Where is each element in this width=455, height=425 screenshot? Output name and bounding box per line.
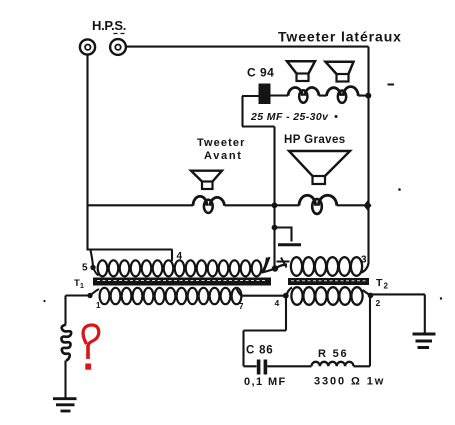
svg-text:1: 1 [80, 283, 84, 290]
wire avant row [88, 204, 369, 206]
speaker LS2 (tweeter lateral right) [326, 62, 359, 103]
T1 bottom right lead [237, 289, 242, 296]
wire terminal 2 to right ground [371, 294, 425, 333]
wire T1 sec to RC junction [241, 295, 286, 297]
svg-text:C 86: C 86 [246, 345, 274, 357]
transformer T1 core [93, 278, 271, 286]
wire C94 left leg down and over to center bus [242, 96, 275, 127]
wire left vertical from J1 [86, 55, 88, 250]
capacitor C86 [257, 360, 267, 375]
speaker LS3 (tweeter avant) [191, 171, 225, 213]
transformer T2 secondary winding [291, 287, 362, 305]
svg-text:T: T [376, 277, 383, 289]
wire center vertical bus [273, 127, 275, 269]
svg-text:R 56: R 56 [318, 348, 348, 360]
wire coil to ground [64, 361, 66, 399]
transformer T2 core [288, 278, 369, 285]
svg-text:25 MF - 25-30v: 25 MF - 25-30v [250, 111, 329, 123]
svg-text:C 94: C 94 [247, 66, 274, 80]
junction T1/T2 top windings with center bus [262, 257, 290, 273]
svg-text:5: 5 [82, 263, 88, 274]
T2 bottom left lead [286, 288, 292, 296]
wire short drop to T1 terminal 5 [91, 250, 94, 266]
svg-text:Avant: Avant [204, 150, 243, 162]
svg-text:1: 1 [96, 301, 101, 310]
svg-text:Tweeter latéraux: Tweeter latéraux [278, 29, 402, 45]
resistor R56 (bump style) [312, 362, 354, 366]
transformer T2 primary winding [291, 257, 362, 276]
ground GND2 (right) [413, 334, 436, 348]
terminal J1 (left H.P.S. binding post) [80, 39, 95, 54]
wire C86 to R56 [267, 365, 311, 367]
wire R56 to T2 terminal 2 [354, 296, 371, 366]
svg-text:Tweeter: Tweeter [197, 137, 245, 149]
svg-text:2: 2 [376, 298, 381, 308]
svg-text:3300 Ω 1w: 3300 Ω 1w [314, 376, 385, 388]
svg-text:7: 7 [239, 302, 244, 311]
ground chassis stub mid [272, 225, 301, 245]
wire tweeter row [319, 95, 369, 97]
node tweeter bus junction [365, 93, 371, 99]
node T1 terminal 5 [90, 265, 95, 270]
svg-text:H.P.S.: H.P.S. [92, 18, 126, 33]
svg-text:2: 2 [384, 282, 389, 291]
transformer T1 secondary winding [100, 288, 242, 304]
wire T1 terminal1 to left coil [66, 296, 91, 325]
wire top from J2 to right vertical [126, 46, 369, 48]
terminal J2 (right H.P.S. binding post) [110, 34, 126, 55]
node RC junction [283, 293, 289, 299]
T1 top right lead tick [262, 258, 268, 273]
transformer T1 primary winding [98, 260, 262, 276]
svg-text:HP Graves: HP Graves [284, 134, 346, 146]
wire RC loop left [244, 296, 287, 367]
ground GND1 (left) [53, 399, 77, 411]
annotation red question mark [83, 325, 99, 370]
T2 top right lead to right bus [362, 264, 369, 273]
wire right vertical bus [367, 47, 369, 264]
svg-text:3: 3 [361, 255, 367, 266]
speaker LS4 (HP graves woofer) [289, 151, 350, 214]
svg-text:0,1 MF: 0,1 MF [244, 376, 287, 388]
speaker LS1 (tweeter lateral left) [287, 61, 319, 102]
svg-text:4: 4 [275, 298, 280, 308]
T2 bottom right lead terminal 2 [363, 290, 371, 295]
inductor L1 (scribble coil) [61, 325, 71, 361]
wire branch to T1 tap 4 [87, 250, 173, 262]
node center bus / avant row [272, 202, 278, 208]
node T1 terminal 1 [87, 293, 92, 298]
stray ink marks [388, 84, 395, 86]
node right bus / graves row [364, 201, 372, 211]
capacitor C94 [242, 84, 288, 105]
